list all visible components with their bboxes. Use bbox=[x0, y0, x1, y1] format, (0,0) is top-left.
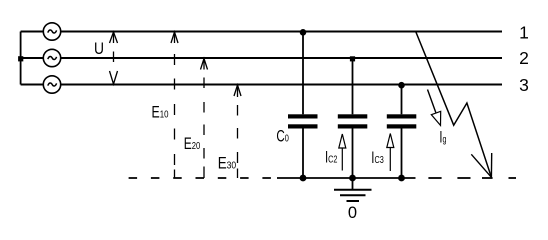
wire: capacitor 1 bottom lead bbox=[302, 129, 304, 179]
AC source G3 bbox=[43, 76, 60, 93]
wire: phase line 3 bbox=[21, 84, 502, 86]
svg-text:IC3: IC3 bbox=[371, 149, 384, 167]
junction: capacitor 1 to line 1 bbox=[300, 29, 307, 36]
junction: neutral bus node bbox=[18, 56, 23, 61]
capacitor C0 phase 2 bbox=[338, 114, 368, 128]
label U bbox=[94, 39, 104, 58]
svg-text:E30: E30 bbox=[218, 155, 237, 173]
wire: earth line dashed right section bbox=[428, 177, 516, 179]
current arrow Ig bbox=[428, 90, 441, 126]
label E10 bbox=[152, 103, 169, 121]
junction: capacitor 3 to line 3 bbox=[398, 82, 405, 89]
wire: phase line 2 bbox=[21, 57, 502, 59]
wire: capacitor 3 top lead bbox=[401, 85, 403, 115]
label node 0 (neutral/earth) bbox=[348, 204, 357, 222]
svg-text:3: 3 bbox=[519, 75, 529, 95]
current arrow IC2 bbox=[339, 134, 346, 171]
svg-text:E20: E20 bbox=[184, 135, 201, 153]
label E20 bbox=[184, 135, 201, 153]
current arrow IC3 bbox=[387, 134, 394, 172]
svg-text:E10: E10 bbox=[152, 103, 169, 121]
wire: earth line dashed left section bbox=[129, 177, 272, 179]
svg-text:0: 0 bbox=[348, 204, 357, 222]
earth fault lightning arrow bbox=[416, 32, 492, 178]
wire: capacitor 2 top lead bbox=[352, 58, 354, 114]
wire: phase line 1 bbox=[21, 31, 502, 33]
EMF arrow E20 (dashed) bbox=[201, 59, 208, 179]
wire: capacitor 2 bottom lead bbox=[352, 129, 354, 179]
label net 2 bbox=[519, 48, 529, 68]
AC source G1 bbox=[43, 23, 60, 40]
AC source G2 bbox=[43, 49, 60, 66]
EMF arrow E30 (dashed) bbox=[234, 85, 241, 178]
wire: capacitor 3 bottom lead bbox=[401, 129, 403, 179]
svg-text:Ig: Ig bbox=[439, 128, 446, 146]
svg-text:2: 2 bbox=[519, 48, 529, 68]
junction: capacitor 2 to earth line bbox=[349, 175, 356, 182]
svg-text:IC2: IC2 bbox=[325, 149, 338, 167]
voltage arrow U (double-headed) bbox=[110, 32, 118, 85]
label E30 bbox=[218, 155, 237, 173]
junction: capacitor 3 to earth line bbox=[398, 175, 405, 182]
label net 1 bbox=[519, 22, 529, 42]
junction: capacitor 1 to earth line bbox=[300, 175, 307, 182]
label IC2 bbox=[325, 149, 338, 167]
label IC3 bbox=[371, 149, 384, 167]
ground bbox=[334, 178, 372, 201]
junction: capacitor 2 to line 2 bbox=[350, 56, 355, 61]
svg-text:1: 1 bbox=[519, 22, 529, 42]
svg-text:C0: C0 bbox=[276, 128, 289, 146]
capacitor C0 phase 1 bbox=[288, 114, 318, 128]
EMF arrow E10 (dashed) bbox=[171, 32, 178, 178]
capacitor C0 phase 3 bbox=[387, 114, 417, 128]
label Ig bbox=[439, 128, 446, 146]
label net 3 bbox=[519, 75, 529, 95]
label C0 bbox=[276, 128, 289, 146]
wire: left neutral bus vertical bbox=[20, 32, 22, 85]
wire: earth line solid section bbox=[277, 177, 416, 179]
svg-text:U: U bbox=[94, 39, 104, 58]
wire: capacitor 1 top lead bbox=[302, 32, 304, 115]
